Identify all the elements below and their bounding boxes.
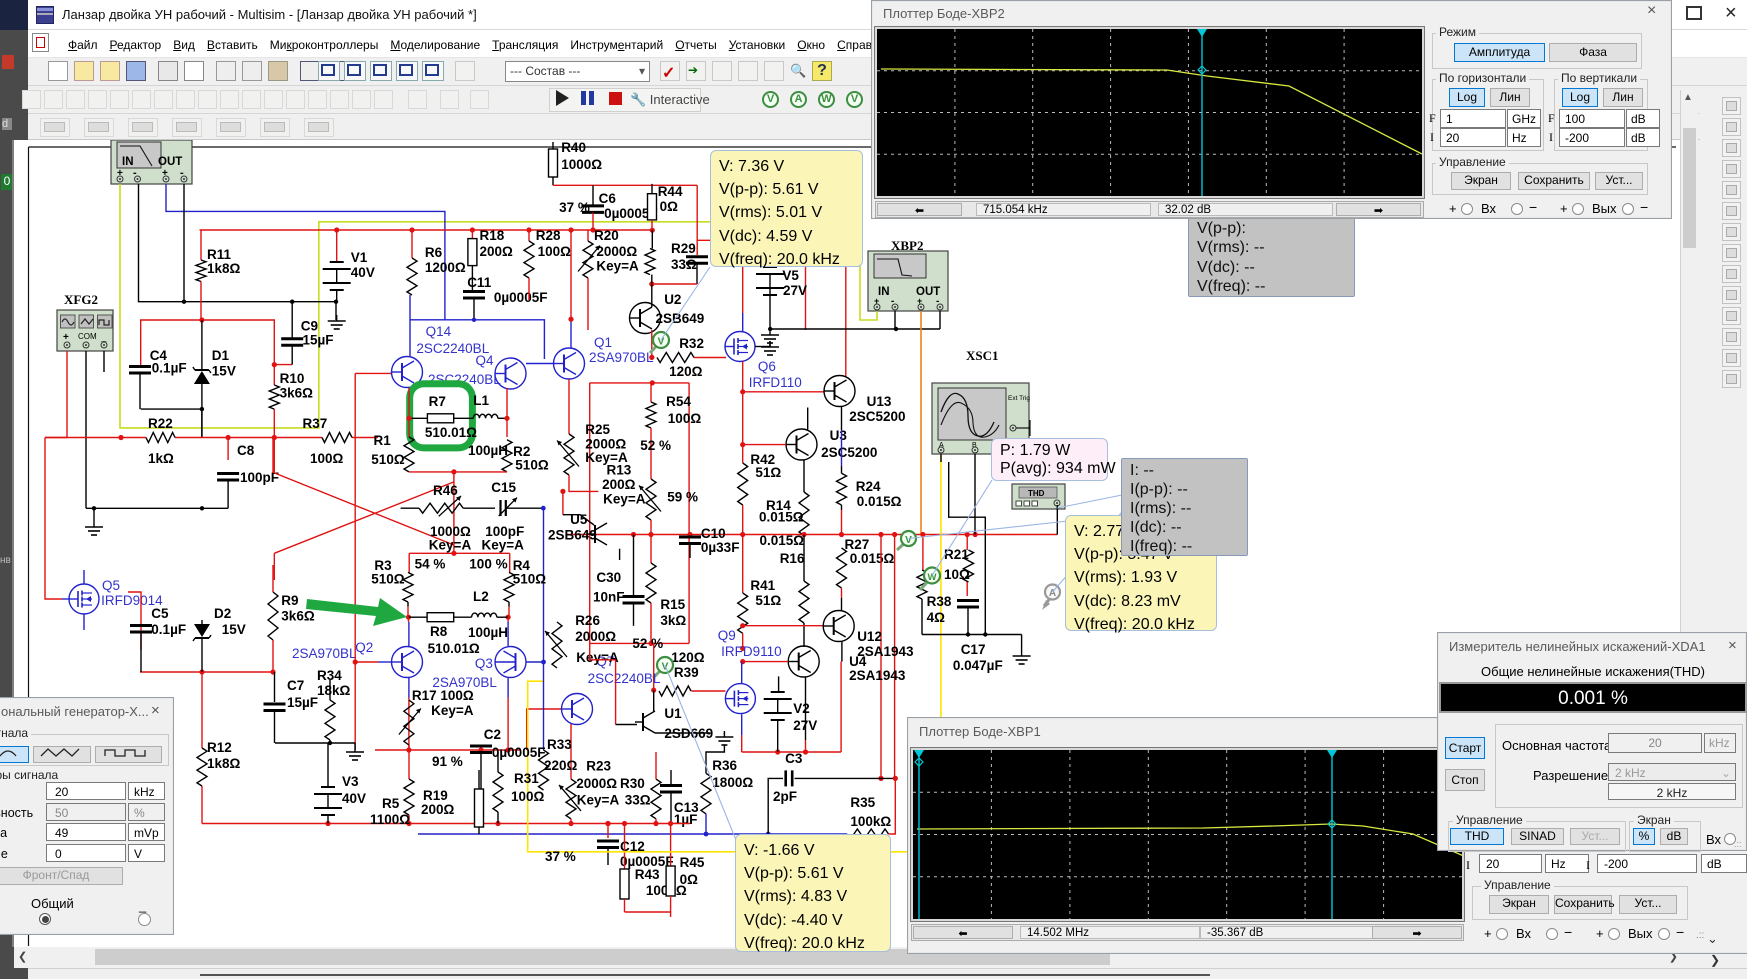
- svg-text:R23: R23: [586, 759, 611, 774]
- resistor R12 1k8: [197, 748, 207, 786]
- resistor R8 510.01 (box): [409, 616, 428, 618]
- wire U4 emitter down: [805, 677, 807, 740]
- ground rail under R38 C17: [922, 634, 1022, 636]
- svg-text:2000Ω: 2000Ω: [596, 244, 637, 259]
- 54/100 box rails: [409, 552, 510, 554]
- canvas: [14, 140, 1680, 947]
- svg-text:R26: R26: [575, 613, 600, 628]
- transistor Q2 2SA970BL: [392, 647, 423, 678]
- svg-text:2SB649: 2SB649: [548, 528, 597, 543]
- red run to Q5 gate: [45, 438, 62, 600]
- svg-text:1100Ω: 1100Ω: [370, 812, 410, 827]
- potentiometer R46 1000 Key=A: [419, 503, 463, 513]
- output bus y=534.5: [566, 534, 1057, 536]
- svg-text:52 %: 52 %: [632, 636, 663, 651]
- capacitor C4 0.1uF: [129, 365, 151, 368]
- svg-text:C15: C15: [491, 480, 516, 495]
- svg-text:R15: R15: [660, 597, 685, 612]
- svg-text:3k6Ω: 3k6Ω: [280, 386, 314, 401]
- svg-text:2SC5200: 2SC5200: [849, 409, 905, 424]
- resistor R4 510: [504, 572, 514, 602]
- resistor R6 1200: [411, 230, 413, 258]
- svg-text:R5: R5: [382, 796, 400, 811]
- resistor R44 0 (box): [651, 184, 653, 194]
- svg-text:U13: U13: [867, 394, 892, 409]
- svg-text:37 %: 37 %: [545, 849, 576, 864]
- svg-text:OUT: OUT: [158, 156, 182, 168]
- red diagonal cross wires: [274, 473, 454, 545]
- svg-text:R34: R34: [317, 668, 342, 683]
- svg-text:L1: L1: [473, 393, 489, 408]
- svg-text:R39: R39: [674, 665, 699, 680]
- wire red Q6-U13 base: [743, 391, 824, 393]
- svg-text:XFG2: XFG2: [64, 292, 98, 307]
- svg-text:R20: R20: [594, 228, 619, 243]
- red v Q6 source down: [742, 362, 744, 392]
- transistor Q7 2SC2240BL: [527, 709, 562, 750]
- wire yellow scope/XBP nets: [528, 681, 907, 852]
- resistor R43 1000 (box): [624, 824, 626, 870]
- transistor Q14 2SC2240BL: [392, 357, 423, 388]
- svg-text:R17 100Ω: R17 100Ω: [412, 688, 474, 703]
- wire lime XBP1.IN+ net: [120, 184, 860, 428]
- svg-text:Q3: Q3: [475, 656, 493, 671]
- svg-text:2SB649: 2SB649: [656, 311, 705, 326]
- svg-text:0Ω: 0Ω: [680, 872, 699, 887]
- resistor R42 51: [742, 392, 744, 445]
- wire blue XBP1.OUT+ to Q14 net: [166, 184, 445, 320]
- blue vertical x=543.5: [543, 508, 545, 750]
- capacitor C7 15uF: [274, 672, 276, 702]
- svg-text:R21: R21: [944, 547, 969, 562]
- svg-text:THD: THD: [1028, 489, 1045, 498]
- svg-text:Q9: Q9: [718, 628, 736, 643]
- red link R40-R44 y=185.3: [553, 184, 697, 186]
- svg-text:100Ω: 100Ω: [310, 451, 344, 466]
- svg-text:IN: IN: [878, 286, 890, 298]
- resistor R7 510.01 (box): [409, 417, 427, 419]
- svg-text:100µH: 100µH: [468, 625, 508, 640]
- capacitor C16: [696, 240, 698, 255]
- Bode plotter window XBP1: [907, 717, 1747, 954]
- wire Q1 collector red to bus: [570, 230, 572, 319]
- battery V2 27V: [778, 676, 780, 692]
- V1 battery 40V: [336, 230, 338, 262]
- svg-text:R19: R19: [423, 788, 448, 803]
- svg-text:59 %: 59 %: [667, 490, 698, 505]
- main window controls: [1686, 6, 1702, 20]
- svg-text:U12: U12: [857, 629, 882, 644]
- svg-text:C10: C10: [701, 526, 726, 541]
- svg-text:Q5: Q5: [102, 578, 120, 593]
- svg-text:IRFD9110: IRFD9110: [721, 644, 782, 659]
- zener D2 15V: [201, 620, 203, 624]
- transistor U1 2SD669: [653, 690, 655, 711]
- red wire to Q14 base: [355, 372, 391, 374]
- blue bus y=834: [418, 833, 847, 835]
- capacitor C10 0u33F: [687, 532, 692, 537]
- probe A grey: [1042, 600, 1050, 610]
- resistor R54 100: [650, 383, 652, 402]
- title bar: [28, 0, 1747, 30]
- wires Q2 Q3 verticals: [408, 617, 410, 622]
- svg-text:Key=A: Key=A: [603, 492, 646, 507]
- ground Q6: [769, 341, 771, 347]
- red left rail x=202 bottom: [201, 672, 203, 748]
- Bode plotter window XBP2: [871, 0, 1672, 219]
- svg-text:U3: U3: [830, 428, 848, 443]
- resistor R27 0.015: [837, 548, 847, 588]
- svg-text:100Ω: 100Ω: [538, 244, 572, 259]
- probe leader lines: [661, 267, 710, 340]
- distortion analyzer icon THD: [1012, 484, 1065, 509]
- toolbar row 1: [28, 57, 1747, 86]
- battery V5 27V: [763, 266, 777, 268]
- red rail R1R2 bottom: [409, 471, 507, 473]
- svg-text:1k8Ω: 1k8Ω: [207, 261, 241, 276]
- wire red Q2 base: [355, 661, 378, 663]
- svg-text:R12: R12: [207, 740, 232, 755]
- resistor R29 33: [651, 230, 653, 248]
- svg-text:510.01Ω: 510.01Ω: [428, 641, 480, 656]
- capacitor C3 2pF: [768, 778, 783, 834]
- ground under V1: [336, 315, 338, 321]
- svg-text:C9: C9: [301, 319, 318, 334]
- svg-text:V2: V2: [793, 701, 810, 716]
- resistor R31 100: [493, 772, 503, 812]
- svg-text:Q6: Q6: [758, 359, 776, 374]
- svg-text:R35: R35: [850, 795, 875, 810]
- svg-text:C7: C7: [287, 678, 304, 693]
- node R8 left: [407, 602, 409, 607]
- inductor L1 100uH: [454, 417, 474, 419]
- svg-text:Key=A: Key=A: [585, 450, 628, 465]
- red verticals right of output stage: [880, 535, 882, 779]
- svg-text:220Ω: 220Ω: [544, 758, 578, 773]
- svg-text:200Ω: 200Ω: [480, 244, 514, 259]
- svg-text:C6: C6: [599, 191, 617, 206]
- resistor R10 3k6: [273, 365, 275, 385]
- svg-text:R22: R22: [148, 416, 173, 431]
- svg-text:Q4: Q4: [476, 353, 495, 368]
- svg-text:2SC5200: 2SC5200: [821, 445, 877, 460]
- svg-text:2SA1943: 2SA1943: [849, 668, 906, 683]
- resistor R39 120: [659, 686, 691, 696]
- wire Q9 source to bottom rail: [741, 714, 743, 735]
- svg-text:40V: 40V: [351, 265, 375, 280]
- wire U12 emitter down: [841, 642, 843, 662]
- red verticals from hidden node: [742, 267, 744, 313]
- svg-text:R54: R54: [666, 394, 691, 409]
- capacitor C2 0u0005F: [470, 745, 492, 748]
- red h y=750 row: [375, 749, 520, 751]
- svg-text:2000Ω: 2000Ω: [576, 776, 617, 791]
- background window strip on far left: [0, 0, 28, 979]
- svg-text:W: W: [928, 572, 937, 583]
- svg-text:10nF: 10nF: [593, 590, 625, 605]
- svg-text:R24: R24: [856, 479, 881, 494]
- red bottom rail y=752: [742, 751, 841, 753]
- main red bus y=230: [200, 229, 653, 231]
- svg-text:R27: R27: [845, 537, 870, 552]
- svg-text:0.015Ω: 0.015Ω: [759, 509, 804, 524]
- svg-text:U1: U1: [664, 706, 682, 721]
- svg-text:U2: U2: [664, 292, 681, 307]
- svg-text:0.015Ω: 0.015Ω: [760, 533, 805, 548]
- svg-text:100Ω: 100Ω: [668, 411, 702, 426]
- resistor R18 200 (box): [471, 230, 473, 239]
- right vertical scrollbar: [1680, 90, 1698, 947]
- svg-text:15µF: 15µF: [287, 695, 318, 710]
- svg-text:C8: C8: [237, 443, 255, 458]
- wire red R15 bottom to R39/U1: [653, 643, 655, 690]
- svg-text:XSC1: XSC1: [966, 348, 999, 363]
- svg-text:IN: IN: [122, 156, 134, 168]
- svg-text:120Ω: 120Ω: [669, 364, 703, 379]
- wire red to U1 base: [615, 660, 617, 725]
- red link R37-R9 column: [272, 438, 274, 473]
- resistor R41 51: [742, 535, 744, 594]
- svg-text:IRFD110: IRFD110: [749, 375, 802, 390]
- resistor R1 510: [404, 437, 414, 472]
- sheet border: [29, 146, 1677, 148]
- wire black XBP1 grounds: [139, 184, 337, 320]
- svg-text:91 %: 91 %: [432, 754, 463, 769]
- wire orange XBP2.OUT+: [920, 311, 922, 535]
- svg-text:R45: R45: [680, 855, 705, 870]
- svg-text:510Ω: 510Ω: [371, 452, 405, 467]
- probe box grey I: [1121, 458, 1248, 556]
- svg-text:0.1µF: 0.1µF: [152, 360, 187, 375]
- black rail y=743: [275, 742, 355, 744]
- svg-text:1800Ω: 1800Ω: [712, 775, 753, 790]
- svg-text:Key=A: Key=A: [429, 538, 472, 553]
- svg-text:R36: R36: [712, 758, 737, 773]
- svg-text:4Ω: 4Ω: [927, 610, 946, 625]
- wire blue Q3 base to blue vert: [526, 661, 544, 663]
- zener D1 15V: [201, 320, 203, 370]
- svg-text:27V: 27V: [783, 283, 807, 298]
- svg-text:C3: C3: [785, 751, 803, 766]
- green annotation ellipse R7: [410, 384, 473, 448]
- ground U1 region: [723, 733, 725, 734]
- transistor U3 2SC5200: [786, 429, 817, 460]
- red U12 base wire: [743, 625, 824, 627]
- svg-text:C2: C2: [484, 727, 501, 742]
- svg-text:R11: R11: [207, 247, 232, 262]
- menu bar: [28, 30, 1747, 57]
- capacitor C15 100pF variable: [463, 507, 495, 509]
- red wire into Q5/C5 region: [128, 592, 141, 623]
- svg-text:100Ω: 100Ω: [511, 789, 545, 804]
- svg-text:Key=A: Key=A: [577, 793, 620, 808]
- svg-text:R32: R32: [679, 336, 704, 351]
- svg-text:Q14: Q14: [426, 324, 452, 339]
- svg-text:V: V: [905, 535, 912, 546]
- Function generator window XFG2 dialog: [0, 697, 174, 935]
- resistor R32 120: [657, 353, 694, 363]
- probe box P pink: [991, 438, 1108, 481]
- svg-text:R18: R18: [480, 228, 505, 243]
- svg-text:200Ω: 200Ω: [421, 802, 455, 817]
- svg-text:R46: R46: [433, 483, 458, 498]
- svg-text:C5: C5: [151, 606, 169, 621]
- svg-text:100µH: 100µH: [468, 443, 508, 458]
- svg-text:2SA970BL: 2SA970BL: [292, 646, 357, 661]
- svg-text:1k8Ω: 1k8Ω: [207, 756, 241, 771]
- svg-text:2SA970BL: 2SA970BL: [589, 350, 654, 365]
- svg-text:R7: R7: [429, 394, 446, 409]
- svg-text:R41: R41: [750, 578, 775, 593]
- bode plotter icon XBP1: [111, 140, 192, 184]
- svg-text:1000Ω: 1000Ω: [561, 157, 602, 172]
- svg-text:Q2: Q2: [355, 640, 373, 655]
- svg-text:U5: U5: [570, 512, 588, 527]
- svg-text:Key=A: Key=A: [596, 259, 639, 274]
- svg-text:2000Ω: 2000Ω: [575, 629, 616, 644]
- svg-text:200Ω: 200Ω: [602, 477, 636, 492]
- svg-text:C11: C11: [467, 275, 492, 290]
- svg-text:C17: C17: [961, 642, 986, 657]
- resistor R45 0 (box): [670, 824, 672, 867]
- svg-text:510Ω: 510Ω: [371, 572, 405, 587]
- wire lime to XBP2.IN+: [860, 222, 877, 320]
- potentiometer R13 200 Key=A: [646, 479, 656, 520]
- resistor R5 1100: [408, 745, 410, 779]
- red verticals mid-bottom: [590, 643, 616, 659]
- resistor R35 100k: [847, 829, 889, 839]
- svg-text:D2: D2: [214, 606, 231, 621]
- red feedback box rails: [590, 382, 689, 384]
- svg-text:510Ω: 510Ω: [513, 572, 547, 587]
- red rail y=823.5 bottom: [202, 823, 690, 825]
- svg-text:3kΩ: 3kΩ: [660, 613, 686, 628]
- wire red R39 to Q9: [691, 690, 725, 692]
- mosfet Q6 IRFD110: [725, 332, 755, 362]
- svg-text:V3: V3: [342, 774, 359, 789]
- svg-text:15V: 15V: [222, 622, 246, 637]
- resistor R16 under bus: [803, 535, 805, 582]
- svg-text:R29: R29: [671, 241, 696, 256]
- capacitor C9 15uF: [291, 302, 293, 338]
- svg-text:120Ω: 120Ω: [671, 650, 705, 665]
- probe box grey top: [1188, 196, 1355, 297]
- THD pin wire: [1056, 505, 1058, 535]
- capacitor C17 0.047uF: [957, 599, 979, 602]
- toolbar row 3: [28, 114, 1747, 140]
- resistor R11 1k8: [200, 230, 202, 260]
- svg-text:_: _: [100, 332, 107, 343]
- svg-text:54 %: 54 %: [415, 557, 446, 572]
- svg-text:R43: R43: [635, 867, 660, 882]
- svg-text:100 %: 100 %: [469, 557, 507, 572]
- svg-text:51Ω: 51Ω: [755, 465, 781, 480]
- probe V2 green: [653, 667, 664, 678]
- mosfet Q9 IRFD9110: [741, 662, 743, 684]
- svg-text:0Ω: 0Ω: [660, 199, 679, 214]
- potentiometer R20 2000 Key=A: [587, 230, 589, 241]
- resistor R40 1000 (box): [552, 142, 554, 149]
- resistor R3 510: [403, 572, 413, 602]
- svg-text:R16: R16: [780, 551, 805, 566]
- capacitor C11 0u0005F: [471, 266, 473, 290]
- bottom horizontal scrollbar: [14, 947, 1680, 968]
- wire red R22 row y=437.5: [45, 437, 146, 439]
- svg-text:L2: L2: [473, 589, 489, 604]
- svg-text:Ext Trig: Ext Trig: [1008, 395, 1030, 402]
- transistor U4 2SA1943: [788, 646, 819, 677]
- svg-text:V1: V1: [351, 250, 368, 265]
- probe box V right: [1065, 515, 1217, 631]
- svg-text:510.01Ω: 510.01Ω: [425, 425, 477, 440]
- svg-text:D1: D1: [212, 348, 230, 363]
- resistor R21 10: [964, 550, 974, 582]
- resistor R14 0.015: [803, 460, 805, 492]
- resistor R37 100: [322, 433, 352, 443]
- red loop C4 D1: [141, 320, 293, 365]
- resistor R38 4: [922, 535, 924, 571]
- svg-text:100kΩ: 100kΩ: [850, 814, 891, 829]
- Distortion analyzer window XDA1: [1437, 632, 1747, 851]
- svg-text:2pF: 2pF: [773, 789, 797, 804]
- svg-text:0.047µF: 0.047µF: [953, 658, 1003, 673]
- svg-text:Key=A: Key=A: [482, 538, 525, 553]
- svg-text:1kΩ: 1kΩ: [148, 451, 174, 466]
- svg-text:R37: R37: [303, 416, 328, 431]
- wire XFG2 leads: [66, 351, 68, 438]
- svg-text:18kΩ: 18kΩ: [317, 683, 351, 698]
- svg-text:R9: R9: [281, 593, 298, 608]
- capacitor C13 1uF: [670, 770, 672, 784]
- resistor R30 33: [651, 779, 661, 819]
- resistor R2 510: [502, 440, 512, 472]
- potentiometer R17 100 Key=A: [404, 700, 414, 745]
- svg-text:R25: R25: [585, 422, 610, 437]
- transistor U2 2SB649: [651, 284, 653, 307]
- output network right: [966, 535, 968, 551]
- transistor U13 2SC5200: [824, 376, 855, 407]
- green arrow annotation: [306, 598, 407, 626]
- svg-text:0.1µF: 0.1µF: [151, 622, 186, 637]
- svg-text:R8: R8: [430, 624, 448, 639]
- svg-text:IRFD9014: IRFD9014: [101, 593, 163, 608]
- svg-text:27V: 27V: [793, 718, 817, 733]
- svg-text:10Ω: 10Ω: [944, 567, 970, 582]
- resistor R28 100: [528, 230, 530, 241]
- inductor L2 100uH: [454, 616, 472, 618]
- probe box V top: [710, 150, 863, 267]
- ground left: [93, 521, 95, 527]
- wire red U3 base: [743, 444, 786, 446]
- svg-text:15µF: 15µF: [303, 333, 334, 348]
- resistor R9 3k6: [272, 565, 274, 592]
- long red vertical x=355: [354, 373, 356, 750]
- potentiometer R23 2000 Key=A: [566, 779, 576, 819]
- svg-text:R1: R1: [374, 433, 392, 448]
- resistor R15 3k: [650, 535, 652, 564]
- svg-text:+: +: [63, 332, 69, 343]
- potentiometer R26 2000 Key=A: [552, 622, 562, 668]
- svg-text:0µ0005F: 0µ0005F: [494, 290, 548, 305]
- svg-text:U4: U4: [849, 654, 867, 669]
- red rail y=672 left: [140, 671, 275, 673]
- resistor R22 1k: [146, 433, 175, 443]
- transistor Q3 2SA970BL: [495, 647, 526, 678]
- mosfet Q5 IRFD9014: [69, 584, 99, 614]
- svg-text:R10: R10: [280, 371, 305, 386]
- ground V5: [769, 329, 771, 335]
- toolbar row 2: [28, 86, 1747, 114]
